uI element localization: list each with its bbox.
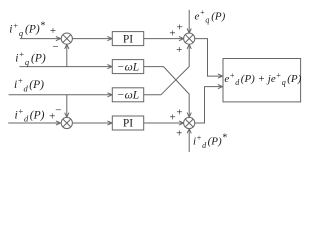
output box [223, 59, 301, 102]
wire row3 branch down to J2 [65, 95, 69, 118]
svg-text:−: − [55, 105, 61, 117]
summing junction J3 [184, 33, 195, 44]
svg-text:−: − [52, 41, 58, 53]
wire id reference into J4 bottom [187, 129, 191, 152]
svg-text:PI: PI [123, 118, 133, 130]
wire J4 output to box [195, 85, 223, 124]
svg-text:+: + [50, 25, 56, 37]
svg-text:e+q(P): e+q(P) [195, 8, 226, 24]
svg-text:+: + [176, 44, 182, 56]
wire row3 input [9, 93, 112, 97]
svg-text:i+d(P): i+d(P) [14, 76, 44, 94]
block PI row1 [112, 32, 143, 46]
wire row4 input [8, 121, 60, 125]
svg-text:+: + [176, 128, 182, 140]
wire -wL row2 cross to J4 [144, 67, 192, 118]
svg-text:i+d(P)*: i+d(P)* [193, 132, 227, 149]
block PI row4 [112, 116, 143, 130]
svg-text:+: + [169, 112, 175, 124]
svg-text:−ωL: −ωL [117, 61, 139, 73]
svg-text:i+d(P): i+d(P) [15, 106, 45, 124]
wire row1 input [20, 37, 61, 41]
wire J3 output to box [195, 39, 223, 79]
wire PI row4 out to J4 [144, 121, 184, 125]
svg-text:+: + [177, 22, 183, 34]
svg-text:i+q(P)*: i+q(P)* [9, 20, 45, 38]
wire J2 to PI block [72, 121, 112, 125]
block -wL row3 [112, 88, 143, 102]
wire -wL row3 cross to J3 [144, 44, 192, 95]
summing junction J2 [61, 117, 72, 128]
wire PI row1 out to J3 [144, 37, 184, 41]
summing junction J1 [61, 33, 72, 44]
wire row2 branch up to J1 [65, 44, 69, 66]
svg-text:PI: PI [123, 33, 133, 45]
svg-text:−ωL: −ωL [117, 90, 139, 102]
block -wL row2 [112, 60, 143, 74]
wire row2 input [19, 65, 112, 69]
summing junction J4 [184, 117, 195, 128]
svg-text:+: + [169, 27, 175, 39]
wire eq feedforward into J3 top [187, 10, 191, 33]
wire J1 to PI block [72, 37, 112, 41]
svg-text:i+q(P): i+q(P) [15, 49, 46, 67]
svg-text:+: + [176, 106, 182, 118]
